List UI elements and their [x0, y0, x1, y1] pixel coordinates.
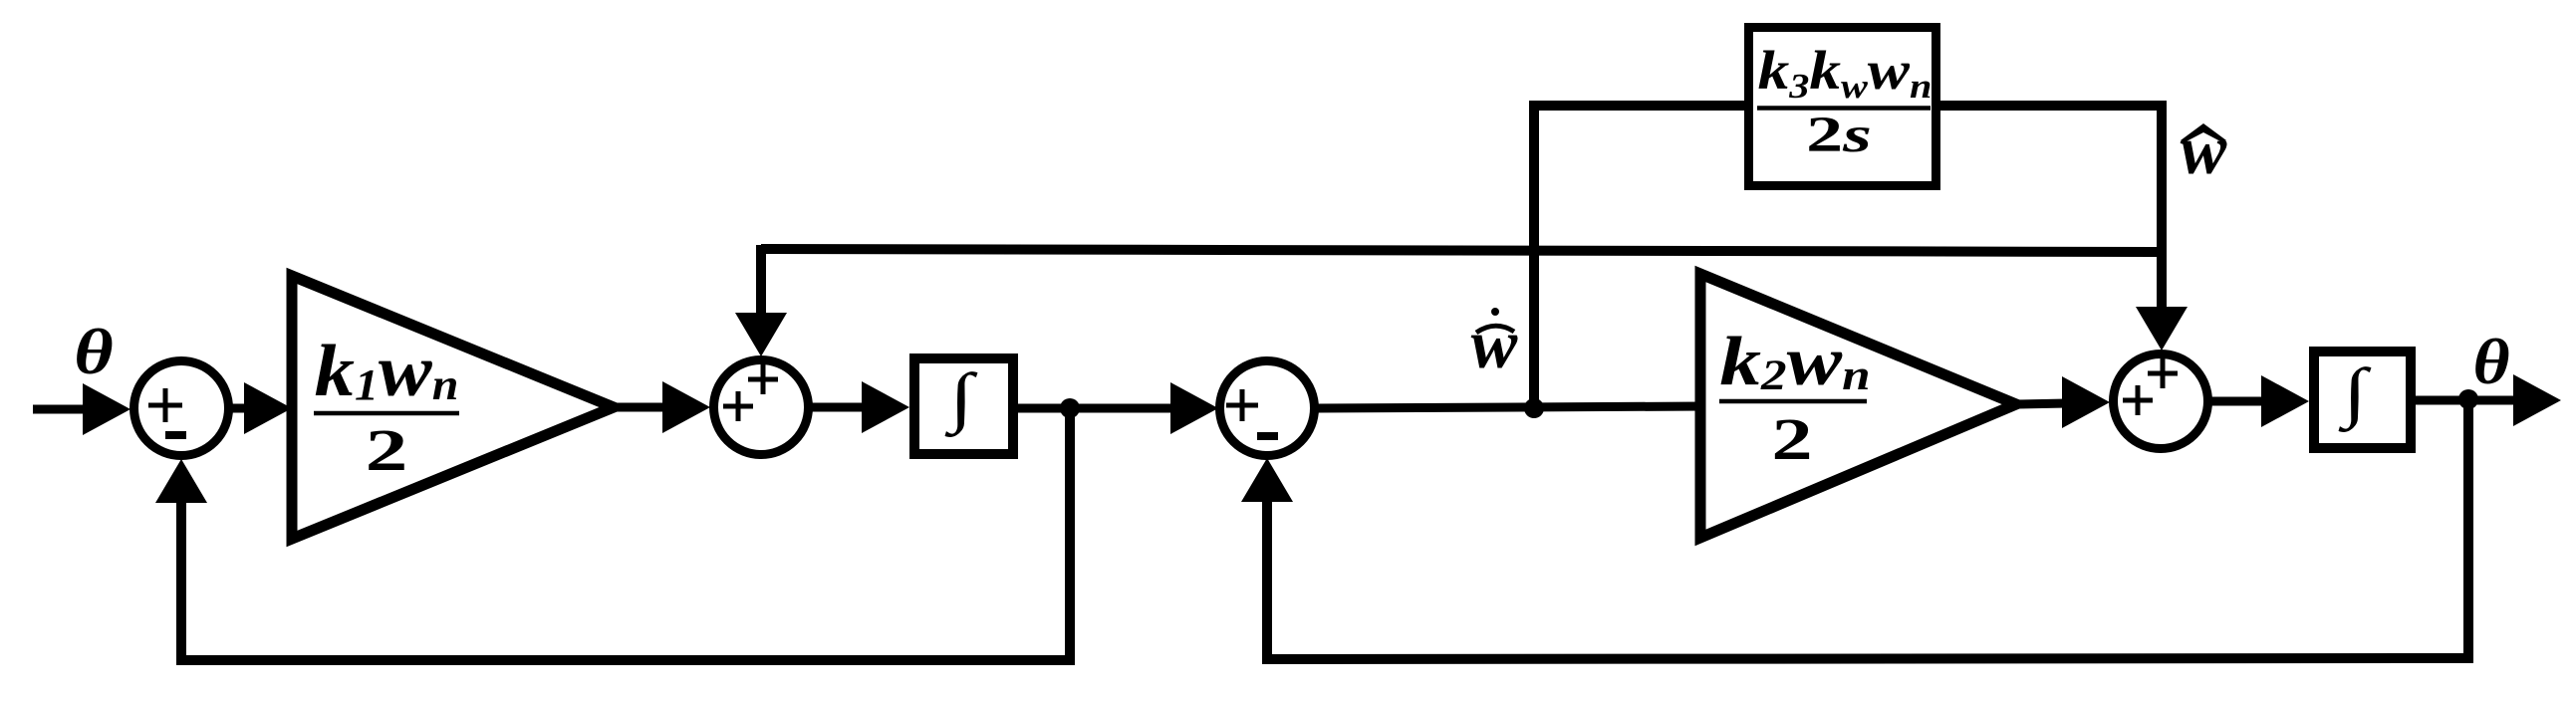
svg-text:∫: ∫ — [943, 360, 977, 438]
svg-text:w: w — [1471, 307, 1518, 383]
wire S4 to I2 — [2211, 375, 2309, 427]
summing junction S4 — [2114, 354, 2208, 449]
node what label — [2181, 113, 2227, 189]
wire feedback loop1 from I1 node to S1 — [155, 408, 1070, 660]
integrator I2 — [2314, 352, 2411, 448]
node theta output label — [2472, 326, 2509, 397]
wire I1 to S3 — [1018, 382, 1218, 434]
wire up into F1 block — [1534, 101, 1751, 111]
svg-text:2: 2 — [1771, 406, 1812, 472]
svg-text:θ: θ — [74, 317, 113, 388]
wire feedback down into S2 top — [735, 245, 787, 356]
node junction dot after I1 — [1060, 398, 1080, 418]
wire F1 to S4 corner — [1940, 106, 2162, 317]
svg-text:∫: ∫ — [2337, 355, 2371, 433]
svg-text:2: 2 — [366, 418, 408, 483]
gain G2 value k2wn/2 — [1719, 322, 1871, 472]
wire I2 to output — [2411, 374, 2561, 426]
node wdot-hat label — [1471, 307, 1518, 383]
wire G1 to S2 — [614, 381, 710, 433]
summing junction S3 — [1220, 361, 1315, 456]
svg-text:2s: 2s — [1806, 106, 1872, 162]
integrator I1 — [914, 358, 1013, 454]
wire G2 to S4 — [2016, 376, 2110, 428]
summing junction S2 — [714, 360, 809, 455]
gain G2 triangle — [1700, 274, 2016, 538]
gain G1 triangle — [292, 276, 614, 539]
wire wdot node up to F1 — [1529, 101, 1539, 408]
wire S1 to G1 — [232, 382, 292, 434]
svg-text:θ: θ — [2472, 326, 2509, 397]
block F1 k3kwwn/2s — [1749, 28, 1936, 186]
summing junction S1 — [134, 361, 229, 456]
node theta input label — [74, 317, 113, 388]
wire input — [33, 383, 130, 435]
gain G1 value k1wn/2 — [314, 330, 459, 483]
wire S3 to G2 — [1317, 406, 1705, 408]
wire feedback loop2 from output node to S3 — [1241, 399, 2468, 659]
wire arrow into S4 top — [2136, 307, 2188, 351]
node junction dot wdot — [1524, 398, 1544, 418]
node junction dot output — [2458, 389, 2478, 409]
wire S2 corner to S4 vertical feed — [761, 249, 2162, 252]
wire S2 to I1 — [812, 381, 909, 433]
